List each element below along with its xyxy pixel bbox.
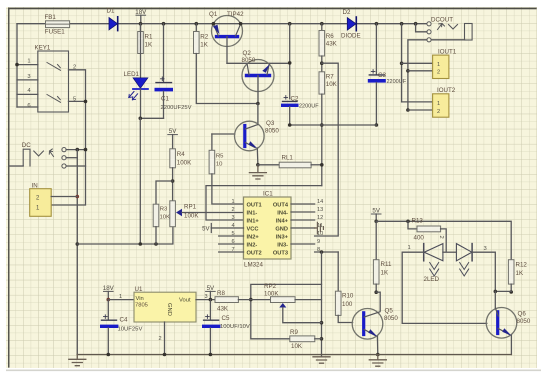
wire: IN pin2 lead bbox=[51, 196, 77, 198]
junction: ring drop bbox=[414, 22, 418, 26]
svg-text:1: 1 bbox=[408, 245, 411, 251]
junction: IOUT1 pin2 bbox=[406, 69, 410, 73]
svg-text:LM324: LM324 bbox=[244, 262, 263, 269]
wire: feedback branch to R9 left bbox=[251, 284, 322, 338]
junction: U1 GND / rail bbox=[163, 353, 167, 357]
resistor R7 bbox=[319, 72, 325, 94]
junction: left drop / pin1 bbox=[15, 63, 19, 67]
svg-text:R13: R13 bbox=[412, 218, 424, 225]
IC1 pin 13 bbox=[291, 211, 315, 213]
resistor R10 bbox=[335, 291, 341, 315]
svg-text:43K: 43K bbox=[217, 306, 229, 313]
svg-text:13: 13 bbox=[317, 207, 323, 213]
DC ring contact bbox=[34, 151, 44, 156]
junction: 5V node bbox=[374, 220, 378, 224]
svg-text:R4: R4 bbox=[177, 151, 185, 158]
svg-text:RP2: RP2 bbox=[264, 283, 277, 290]
svg-text:Q3: Q3 bbox=[266, 120, 275, 127]
sheet border left bbox=[8, 8, 10, 368]
junction: C4 / rail bbox=[107, 353, 111, 357]
wire: Q2 emitter drop to Q3 bbox=[257, 76, 259, 104]
resistor R1 bbox=[140, 24, 142, 32]
junction: IOUT2 pin2 bbox=[406, 108, 410, 112]
svg-text:Q1: Q1 bbox=[209, 11, 218, 18]
wire: R10 bottom to Q5 base bbox=[338, 315, 352, 322]
junction: 2LED pin3 / Q6 collector bbox=[494, 290, 498, 294]
wire: KEY1 pin5 lead bbox=[69, 100, 86, 102]
junction: Q2 collector node bbox=[288, 61, 292, 65]
junction: IN pin2 bbox=[76, 195, 80, 199]
2LED left emission arrow bbox=[430, 263, 439, 277]
2LED right diode bbox=[456, 244, 472, 261]
svg-text:D1: D1 bbox=[107, 8, 115, 15]
svg-text:C4: C4 bbox=[120, 317, 128, 324]
IC1 pin 11 bbox=[291, 227, 315, 229]
svg-text:IOUT1: IOUT1 bbox=[438, 49, 457, 56]
svg-text:FB1: FB1 bbox=[45, 14, 57, 21]
wire: RP2 wiper to feedback bbox=[283, 308, 322, 323]
wire: to U1 Vin bbox=[108, 299, 134, 301]
wire: IOUT2 pin1 lead bbox=[402, 101, 433, 103]
svg-text:R8: R8 bbox=[217, 290, 225, 297]
relay coil RL1 bbox=[258, 164, 279, 166]
wire: KEY1 pin6 stub bbox=[17, 106, 38, 108]
svg-text:2: 2 bbox=[437, 70, 440, 76]
svg-text:R3: R3 bbox=[160, 207, 168, 213]
diode D1 bbox=[109, 18, 118, 30]
svg-text:U1: U1 bbox=[135, 286, 143, 293]
wire: top 18V rail left segment bbox=[17, 23, 109, 25]
junction: C1 top bbox=[162, 22, 166, 26]
wire: IOUT1 pin2 lead bbox=[408, 70, 433, 72]
svg-text:TIP42: TIP42 bbox=[227, 11, 244, 18]
junction: C3 column top bbox=[375, 22, 379, 26]
wire: DC pin2 lead bbox=[66, 157, 77, 159]
svg-text:GND: GND bbox=[275, 227, 288, 233]
junction: C3 / mid bus bbox=[375, 123, 379, 127]
diode D2 bbox=[347, 18, 356, 31]
junction: RL1 right / R7 column bbox=[320, 163, 324, 167]
junction: Q1 emitter on rail bbox=[212, 22, 216, 26]
junction: DC1/A bbox=[76, 148, 80, 152]
wire: left drop to KEY1 pins bbox=[16, 24, 18, 107]
svg-text:LED1: LED1 bbox=[124, 71, 140, 78]
ground (Q3 emitter) bbox=[257, 165, 259, 173]
svg-text:D2: D2 bbox=[343, 9, 351, 16]
resistor R3 bbox=[153, 204, 159, 227]
junction: R2/Q2/Q3 node bbox=[256, 102, 260, 106]
junction: R7 column / mid bus bbox=[320, 123, 324, 127]
svg-text:IN3+: IN3+ bbox=[276, 235, 289, 241]
wire: R13 to 2LED center bbox=[441, 229, 447, 251]
regulator U1 7805 bbox=[134, 292, 196, 322]
svg-text:Q2: Q2 bbox=[243, 50, 252, 57]
pin circle DC 3 bbox=[62, 164, 66, 168]
wire: DC pin1 lead bbox=[66, 149, 85, 151]
wire: C4 drop bbox=[107, 300, 109, 320]
junction: DC1/B bbox=[84, 148, 88, 152]
junction: Q1 collector on rail bbox=[239, 22, 243, 26]
wire: Q3 emitter to ground bbox=[256, 148, 259, 165]
svg-text:100: 100 bbox=[342, 301, 353, 308]
svg-text:GND: GND bbox=[166, 303, 172, 316]
ground (IC1 pin11, rotated) bbox=[315, 227, 318, 229]
wire: 2LED pin1 to Q6 base bbox=[402, 252, 487, 323]
svg-text:8050: 8050 bbox=[242, 57, 256, 64]
wire: Q1 base drop bbox=[226, 37, 228, 64]
svg-text:5: 5 bbox=[231, 231, 234, 237]
svg-text:6: 6 bbox=[27, 103, 30, 109]
resistor R6 bbox=[321, 24, 323, 31]
svg-text:12: 12 bbox=[317, 215, 323, 221]
resistor R8 bbox=[215, 297, 238, 303]
junction: R1 top bbox=[139, 22, 143, 26]
junction: C2 column top bbox=[288, 22, 292, 26]
fuse FB1 bbox=[46, 21, 70, 28]
junction: 18V / U1 Vin / C4 bbox=[107, 298, 111, 302]
junction: C5 / rail bbox=[209, 353, 213, 357]
junction: R8/RP2 wire crossing bbox=[249, 298, 253, 302]
junction: R6 top bbox=[320, 22, 324, 26]
svg-text:6: 6 bbox=[231, 239, 234, 245]
junction: 5V / R8 / C5 bbox=[209, 298, 213, 302]
svg-text:2200UF: 2200UF bbox=[299, 104, 319, 110]
pin circle DCOUT sleeve bbox=[427, 38, 431, 42]
ground (Q5 emitter) bbox=[377, 355, 379, 359]
wire: RP1 wiper to IC1 pin2 bbox=[182, 212, 244, 214]
wire: DC pin3 lead bbox=[66, 165, 85, 167]
svg-text:R7: R7 bbox=[326, 74, 334, 81]
wire: R12 bottom to Q6 collector node bbox=[495, 290, 511, 292]
IC1 pin 14 bbox=[291, 203, 315, 205]
capacitor C2 bbox=[283, 100, 298, 102]
IC1 pin 7 bbox=[219, 251, 244, 253]
svg-text:7: 7 bbox=[231, 247, 234, 253]
wire: R4 bottom to RP1 top bbox=[172, 168, 174, 201]
svg-text:1K: 1K bbox=[145, 42, 153, 49]
svg-text:2: 2 bbox=[437, 109, 440, 115]
DC barrel bbox=[23, 149, 30, 166]
svg-text:IN1-: IN1- bbox=[247, 211, 258, 217]
wire: drop to IOUT pin1s bbox=[401, 24, 403, 102]
svg-text:Q6: Q6 bbox=[518, 311, 527, 318]
resistor R2 bbox=[195, 24, 197, 32]
wire: 2LED pin3 down bbox=[472, 252, 495, 291]
svg-text:14: 14 bbox=[317, 199, 323, 205]
IC1 pin 6 bbox=[219, 243, 244, 245]
wire: IC1 pin8 out bbox=[315, 251, 339, 253]
KEY1 switch lever A bbox=[47, 63, 61, 71]
svg-text:R2: R2 bbox=[200, 34, 208, 41]
wire: C3 column upper bbox=[375, 24, 377, 75]
transistor Q3 8050 bbox=[235, 121, 265, 151]
junction: R6/R7 divider bbox=[320, 61, 324, 65]
junction: IOUT pin1 drop bbox=[400, 22, 404, 26]
wire: R3 bottom bbox=[155, 227, 157, 244]
pin circle DC 2 bbox=[62, 156, 66, 160]
svg-text:8050: 8050 bbox=[265, 128, 279, 135]
wire: LED column down to mid bus bbox=[139, 118, 141, 244]
svg-text:1: 1 bbox=[437, 62, 440, 68]
svg-text:IN1+: IN1+ bbox=[247, 219, 260, 225]
svg-text:8050: 8050 bbox=[517, 318, 531, 325]
transistor Q5 8050 bbox=[352, 309, 383, 340]
svg-text:2200UF: 2200UF bbox=[387, 79, 407, 85]
svg-text:IN2+: IN2+ bbox=[247, 235, 260, 241]
svg-text:2: 2 bbox=[231, 207, 234, 213]
svg-text:10UF25V: 10UF25V bbox=[118, 327, 143, 333]
capacitor C1 bbox=[163, 24, 165, 83]
junction: R12 bottom bbox=[509, 290, 513, 294]
wire: to Q5 collector bbox=[376, 292, 380, 311]
wire: 5V to IC1 pin4 bbox=[211, 227, 243, 229]
wire: vertical A (DC to ground rail) bbox=[76, 150, 78, 355]
svg-text:R10: R10 bbox=[342, 293, 354, 300]
junction: pin8 / feedback vertical bbox=[320, 250, 324, 254]
wire: bottom ground rail bbox=[77, 354, 511, 356]
DC tip contact arrow bbox=[49, 149, 53, 157]
svg-text:IOUT2: IOUT2 bbox=[437, 87, 456, 94]
junction: Q5 emitter / rail bbox=[376, 353, 380, 357]
svg-text:Q5: Q5 bbox=[385, 308, 394, 315]
resistor R12 bbox=[508, 260, 514, 284]
DCOUT ring contact bbox=[449, 25, 458, 30]
resistor R11 bbox=[375, 221, 377, 259]
svg-text:R5: R5 bbox=[216, 154, 224, 160]
IC1 pin 9 bbox=[291, 243, 315, 245]
junction: R4/R3 tap bbox=[171, 179, 175, 183]
svg-text:IN4-: IN4- bbox=[277, 211, 288, 217]
wire: Q5 emitter to rail bbox=[376, 336, 378, 354]
svg-text:1K: 1K bbox=[200, 42, 208, 49]
transistor Q6 8050 bbox=[486, 308, 517, 339]
wire: RP2 right to feedback vertical bbox=[295, 299, 321, 301]
svg-text:100UF/10V: 100UF/10V bbox=[220, 324, 250, 330]
wire: KEY1 pin1 stub bbox=[17, 64, 38, 66]
svg-text:2200UF25V: 2200UF25V bbox=[161, 105, 192, 111]
2LED left diode bbox=[423, 244, 425, 261]
svg-text:9: 9 bbox=[317, 239, 320, 245]
junction: LED column / bus bbox=[139, 242, 143, 246]
capacitor C3 bbox=[369, 74, 384, 76]
wire: jog to R3 top bbox=[156, 181, 173, 204]
wire: to R10 top bbox=[337, 252, 339, 291]
svg-text:DCOUT: DCOUT bbox=[431, 17, 453, 24]
svg-text:100K: 100K bbox=[264, 290, 279, 297]
IC1 pin 12 bbox=[291, 219, 315, 221]
wire: 5V rail to R12 bbox=[376, 221, 511, 259]
svg-text:400: 400 bbox=[414, 235, 425, 242]
wire: R5 top bbox=[211, 134, 213, 150]
svg-text:7805: 7805 bbox=[135, 303, 148, 309]
svg-text:1: 1 bbox=[119, 294, 122, 300]
wire: feedback vertical (pin8 to ground) bbox=[321, 252, 323, 357]
potentiometer RP2 bbox=[271, 297, 296, 303]
wire: 2LED common bbox=[443, 251, 457, 253]
wire: sleeve to IOUT pin2s bbox=[408, 40, 427, 110]
wire: C5 drop bbox=[209, 300, 211, 320]
wire: Q6 emitter down bbox=[510, 335, 512, 354]
svg-text:10K: 10K bbox=[291, 343, 303, 350]
wire: U1 GND to rail bbox=[164, 322, 166, 355]
svg-text:2: 2 bbox=[438, 236, 444, 239]
svg-text:IN2-: IN2- bbox=[247, 243, 258, 249]
transistor Q1 TIP42 bbox=[212, 16, 243, 47]
wire: DC sleeve to border bbox=[9, 165, 23, 167]
svg-text:IN4+: IN4+ bbox=[276, 219, 289, 225]
svg-text:2LED: 2LED bbox=[424, 276, 440, 283]
wire: to Q6 collector bbox=[494, 291, 496, 308]
svg-text:C5: C5 bbox=[222, 315, 230, 322]
wire: C3 column lower bbox=[375, 83, 377, 125]
wire: over-IC link to pin3 bbox=[206, 186, 322, 220]
pin circle DC 1 bbox=[62, 148, 66, 152]
wire: drop into Q3 collector bbox=[257, 104, 259, 125]
svg-text:OUT2: OUT2 bbox=[247, 251, 262, 257]
svg-text:43K: 43K bbox=[326, 41, 338, 48]
svg-text:OUT3: OUT3 bbox=[273, 251, 288, 257]
svg-text:FUSE1: FUSE1 bbox=[45, 29, 66, 36]
capacitor C4 bbox=[102, 319, 117, 321]
resistor R9 bbox=[290, 336, 315, 342]
junction: IOUT1 pin1 bbox=[400, 62, 404, 66]
ground (feedback divider) bbox=[313, 357, 330, 363]
junction: C2 bottom / bus bbox=[288, 123, 292, 127]
junction: A / mid-left bus bbox=[76, 242, 80, 246]
LED LED1 bbox=[140, 24, 142, 78]
svg-text:OUT4: OUT4 bbox=[273, 203, 289, 209]
wire: R5 bottom to IC1 pin1 bbox=[212, 174, 244, 204]
svg-text:3: 3 bbox=[205, 294, 208, 300]
2LED right emission arrow bbox=[460, 263, 469, 277]
svg-text:R6: R6 bbox=[326, 33, 334, 40]
capacitor C5 bbox=[204, 319, 219, 321]
wire: R6-R7 link bbox=[321, 56, 323, 72]
svg-text:R1: R1 bbox=[145, 34, 153, 41]
svg-text:R9: R9 bbox=[290, 329, 298, 336]
svg-text:DIODE: DIODE bbox=[341, 33, 361, 40]
svg-text:5V: 5V bbox=[202, 227, 209, 233]
KEY1 switch lever B bbox=[47, 95, 61, 103]
svg-text:10K: 10K bbox=[326, 81, 338, 88]
svg-text:1K: 1K bbox=[381, 270, 389, 277]
wire: top 18V rail middle segment bbox=[118, 23, 348, 25]
wire: mid horizontal bus bbox=[290, 124, 377, 126]
junction: pin2/pin5 bbox=[84, 100, 88, 104]
svg-text:100K: 100K bbox=[184, 213, 199, 220]
wire: divider to IC1 pin10 bbox=[315, 63, 339, 236]
DCOUT sleeve bbox=[465, 24, 473, 41]
sheet shadow line bottom bbox=[6, 370, 541, 372]
junction: RP2 wiper in bbox=[320, 321, 324, 325]
svg-text:5V: 5V bbox=[169, 128, 177, 135]
svg-text:R12: R12 bbox=[516, 262, 528, 269]
svg-text:100K: 100K bbox=[177, 160, 192, 167]
svg-text:Vout: Vout bbox=[179, 298, 191, 304]
junction: Q3 emitter / RL1 left bbox=[256, 163, 260, 167]
wire: rail to DCOUT ring bbox=[416, 24, 427, 32]
svg-text:3: 3 bbox=[484, 246, 487, 252]
junction: LED1/C1 bbox=[139, 117, 143, 121]
IC1 pin 5 bbox=[219, 235, 244, 237]
svg-text:1: 1 bbox=[231, 199, 234, 205]
pin circle DCOUT tip bbox=[427, 22, 431, 26]
pin circle DCOUT ring bbox=[427, 30, 431, 34]
wire: IOUT2 pin2 lead bbox=[408, 109, 433, 111]
potentiometer RP1 bbox=[170, 201, 176, 227]
wire: R9 right lead bbox=[315, 338, 322, 340]
svg-text:8050: 8050 bbox=[384, 315, 398, 322]
svg-text:RP1: RP1 bbox=[184, 204, 197, 211]
wire: R2 bottom to Q3 collector node bbox=[196, 54, 258, 104]
svg-text:C3: C3 bbox=[378, 72, 386, 79]
svg-text:C1: C1 bbox=[161, 96, 169, 103]
resistor R13 bbox=[408, 221, 417, 229]
wire: Q1 to Q2/C2 node bbox=[227, 62, 290, 64]
wire: R8 to RP2 bbox=[238, 299, 270, 301]
svg-text:1: 1 bbox=[27, 59, 30, 65]
svg-text:VCC: VCC bbox=[247, 227, 259, 233]
wire: LED1/C1 bottom link bbox=[140, 117, 163, 119]
wire: mid-left bus to RP1 bottom bbox=[77, 227, 173, 244]
wire: sleeve link bbox=[431, 39, 464, 41]
junction: R2 top bbox=[195, 22, 199, 26]
svg-text:1: 1 bbox=[437, 101, 440, 107]
svg-text:R11: R11 bbox=[381, 261, 392, 268]
wire: LED1 cathode drop bbox=[140, 89, 142, 118]
svg-text:3: 3 bbox=[27, 74, 30, 80]
svg-text:10K: 10K bbox=[160, 215, 171, 221]
DCOUT tip contact arrow bbox=[438, 24, 445, 30]
transistor Q2 8050 bbox=[242, 60, 274, 92]
svg-text:OUT1: OUT1 bbox=[247, 203, 262, 209]
svg-text:10: 10 bbox=[216, 162, 223, 168]
svg-text:RL1: RL1 bbox=[282, 155, 294, 162]
wire: IOUT1 pin1 lead bbox=[402, 62, 433, 64]
svg-text:3: 3 bbox=[231, 215, 234, 221]
junction: R11 bottom / Q5 collector bbox=[374, 290, 378, 294]
svg-text:C2: C2 bbox=[291, 95, 299, 102]
wire: RL1 right lead bbox=[311, 164, 322, 166]
svg-text:2: 2 bbox=[159, 336, 162, 342]
wire: top rail right segment to DCOUT bbox=[357, 23, 427, 25]
svg-text:1K: 1K bbox=[516, 270, 524, 277]
junction: R3 bottom / bus bbox=[154, 242, 158, 246]
wire: R7 bottom down through bus to RL1 node bbox=[321, 94, 323, 186]
junction: R9 right in bbox=[320, 337, 324, 341]
svg-text:Vin: Vin bbox=[136, 296, 144, 302]
sheet border top bbox=[8, 8, 537, 10]
wire: U1 Vout to R8 bbox=[196, 299, 215, 301]
wire: KEY1 pin3 stub bbox=[17, 79, 38, 81]
svg-text:DC: DC bbox=[22, 142, 31, 149]
junction: R13 tap bbox=[406, 220, 410, 224]
svg-text:IN3-: IN3- bbox=[277, 243, 288, 249]
resistor R4 bbox=[170, 149, 176, 168]
ground (rail left) bbox=[76, 355, 78, 359]
wire: KEY1 pin4 stub bbox=[17, 93, 38, 95]
wire: C2 column bbox=[289, 24, 291, 99]
wire: KEY1 pin2 / vertical B / IN pin1 bbox=[51, 70, 85, 205]
wire: Q3 base lead bbox=[212, 133, 235, 135]
